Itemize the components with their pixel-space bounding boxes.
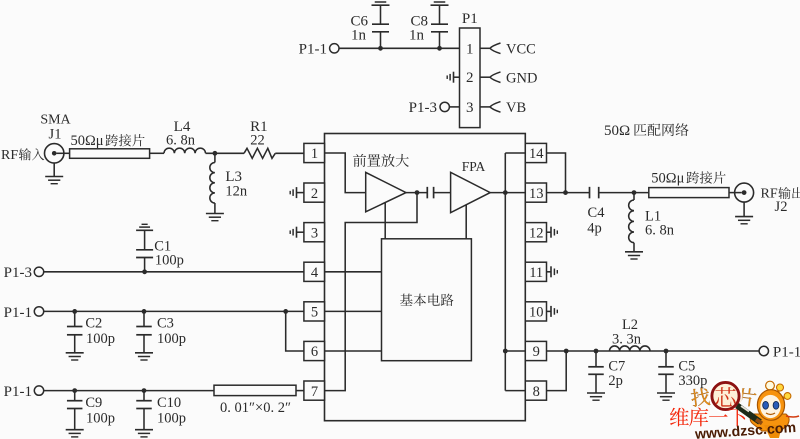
svg-text:5: 5 [311, 305, 318, 321]
op-amp IC main body [325, 134, 526, 421]
svg-text:P1-1: P1-1 [773, 344, 800, 360]
terminal P1-1 (right) [759, 344, 800, 360]
node C9 tap [72, 388, 77, 393]
wire jumper to J2 [729, 192, 734, 194]
svg-text:3. 3n: 3. 3n [612, 331, 642, 347]
wire pin5 to block [325, 310, 382, 312]
microstrip jumper 50ohm (input) [64, 149, 150, 159]
ground (below C3) [135, 352, 153, 354]
wire C4 to jumper [599, 192, 649, 194]
pin 8 [525, 381, 546, 400]
ground (below C9) [66, 429, 84, 431]
ground (above C6) [372, 4, 390, 6]
watermark dzsc logo [670, 381, 799, 439]
ground (below C7) [587, 392, 605, 394]
wire pin1 to preamp input [325, 153, 366, 193]
wire FPA out to pin13 [490, 192, 525, 194]
capacitor C4 4p [587, 187, 605, 237]
pin 2 GND [480, 70, 537, 86]
label preamp [353, 154, 366, 167]
svg-text:2: 2 [311, 186, 318, 202]
capacitor C3 100p [136, 311, 186, 352]
ground (below J2) [735, 202, 753, 224]
node pin14/13 join [563, 190, 568, 195]
node L1 tap [632, 190, 637, 195]
svg-text:1: 1 [466, 41, 474, 57]
svg-text:2: 2 [466, 70, 474, 86]
ground (pin 3) [290, 227, 304, 238]
ground (above C1) [136, 229, 153, 231]
svg-text:P1-3: P1-3 [409, 100, 437, 116]
svg-text:13: 13 [529, 186, 544, 202]
node C7 tap [594, 349, 599, 354]
terminal P1-1 (row to pin7) [4, 384, 44, 400]
capacitor C6 1n [350, 5, 389, 48]
capacitor C9 100p [67, 391, 115, 430]
svg-text:50Ω: 50Ω [604, 123, 630, 139]
node junction C6 [378, 46, 383, 51]
svg-text:4p: 4p [587, 221, 602, 237]
pin 14 [525, 143, 546, 162]
microstrip jumper 50ohm (output) [649, 188, 729, 198]
svg-text:100p: 100p [157, 331, 186, 347]
pin 1 VCC [480, 42, 536, 58]
terminal P1-3 (to P1 pin 3) [409, 100, 460, 116]
pin 13 [525, 183, 546, 202]
op-amp preamp triangle [366, 172, 406, 211]
svg-text:C3: C3 [157, 315, 174, 331]
label RF output J2 [761, 187, 800, 216]
pin 1 [304, 143, 325, 162]
ground (P1 pin 2) [447, 72, 459, 83]
connector J1 SMA coax [40, 113, 71, 164]
wire R1 to pin 1 [275, 152, 304, 154]
wire feedback path to pin 7 [325, 193, 418, 391]
svg-text:12: 12 [529, 225, 544, 241]
svg-text:330p: 330p [678, 373, 707, 389]
svg-text:100p: 100p [157, 410, 186, 426]
node internal pin 9 [503, 349, 508, 354]
capacitor C2 100p [67, 311, 115, 352]
svg-text:50Ωμ: 50Ωμ [71, 133, 104, 149]
wire pin14 jog to pin13 net [547, 153, 566, 193]
svg-text:1: 1 [311, 146, 318, 162]
svg-text:VB: VB [506, 100, 526, 116]
capacitor C7 2p [588, 351, 625, 393]
svg-text:1n: 1n [351, 28, 367, 44]
svg-text:2p: 2p [608, 373, 623, 389]
wire P1-1 to pin 5 [44, 310, 304, 312]
inductor L2 3.3n [610, 317, 651, 351]
svg-text:SMA: SMA [40, 113, 71, 128]
resistor R1 22 [244, 119, 275, 158]
pin 9 [525, 341, 546, 360]
svg-text:P1-1: P1-1 [4, 305, 32, 321]
svg-text:0. 01″×0. 2″: 0. 01″×0. 2″ [220, 400, 291, 416]
svg-text:C10: C10 [157, 395, 181, 411]
label RF input [1, 148, 44, 163]
label 50 ohm matching network [604, 123, 689, 139]
wire FPA bias tap [465, 205, 467, 239]
node pin8 branch [564, 349, 569, 354]
svg-text:P1-1: P1-1 [299, 42, 327, 58]
wire pin6 jog [286, 311, 304, 351]
ground (below C10) [135, 429, 153, 431]
node pin6 branch [283, 309, 288, 314]
svg-text:P1: P1 [462, 11, 478, 27]
inductor L4 6.8n [164, 119, 206, 153]
inductor L1 6.8n [629, 193, 675, 252]
wire P1-1 to microstrip [44, 390, 214, 392]
wire preamp bias tap [384, 203, 386, 239]
pin 7 [304, 381, 325, 400]
ground (pin 2) [290, 187, 304, 198]
wire pin4 to block [325, 271, 382, 273]
node C10 tap [142, 388, 147, 393]
pin 12 [525, 223, 546, 242]
node C2 tap [72, 309, 77, 314]
label 50 ohm jumper (input) [71, 133, 145, 149]
svg-text:C2: C2 [85, 315, 102, 331]
ground (below J1) [45, 163, 63, 184]
svg-text:50Ωμ: 50Ωμ [651, 170, 684, 186]
ground (pin 12) [547, 227, 558, 238]
svg-text:100p: 100p [86, 410, 115, 426]
pin 2 [304, 183, 325, 202]
wire pin8 jog [547, 351, 567, 391]
capacitor C10 100p [136, 391, 186, 430]
node C3 tap [142, 309, 147, 314]
svg-text:12n: 12n [225, 184, 248, 200]
svg-text:6. 8n: 6. 8n [645, 223, 675, 239]
wire internal bus (pins 14/13/9/8) [505, 153, 525, 391]
svg-text:9: 9 [533, 344, 540, 360]
pin 10 [525, 302, 546, 321]
capacitor C1 100p [136, 230, 184, 271]
terminal P1-1 (row to pin5) [4, 305, 44, 321]
svg-text:22: 22 [250, 133, 265, 149]
wire pin6 to block [325, 350, 382, 352]
wire pin13 to C4 [547, 192, 590, 194]
pin 3 [304, 223, 325, 242]
svg-text:6: 6 [311, 344, 318, 360]
node FPA out [503, 190, 508, 195]
svg-text:C4: C4 [588, 205, 606, 221]
svg-text:14: 14 [529, 146, 544, 162]
wire L4 to R1 [206, 152, 245, 154]
svg-text:100p: 100p [86, 331, 115, 347]
node L3 tap [213, 151, 218, 156]
capacitor C5 330p [658, 351, 707, 393]
inductor L3 12n [210, 153, 248, 213]
svg-text:J2: J2 [775, 199, 788, 215]
node C5 tap [664, 349, 669, 354]
svg-text:10: 10 [529, 305, 544, 321]
svg-text:6. 8n: 6. 8n [166, 133, 196, 149]
svg-text:100p: 100p [155, 253, 184, 269]
connector P1 [460, 11, 481, 128]
wire microstrip to pin 7 [296, 390, 304, 392]
pin 6 [304, 341, 325, 360]
pin 4 [304, 262, 325, 281]
node junction C8 [437, 46, 442, 51]
ground (below L3) [206, 213, 224, 215]
basic circuit block [382, 239, 472, 361]
wire pin9 row [547, 350, 760, 352]
ground (below C5) [657, 392, 675, 394]
wire jumper to L4 [150, 152, 164, 154]
svg-text:11: 11 [529, 265, 543, 281]
connector J2 coax [735, 183, 754, 202]
svg-text:RF: RF [1, 148, 18, 163]
label 50 ohm jumper (output) [651, 170, 725, 186]
svg-text:C9: C9 [85, 395, 102, 411]
svg-text:FPA: FPA [462, 159, 486, 174]
node preamp out [415, 190, 420, 195]
pin 5 [304, 302, 325, 321]
svg-text:VCC: VCC [506, 42, 536, 58]
op-amp FPA triangle [451, 172, 491, 212]
pin 3 VB [480, 100, 526, 116]
svg-text:1n: 1n [409, 28, 425, 44]
ground (below C2) [66, 352, 84, 354]
ground (above C8) [431, 4, 449, 6]
pin 11 [525, 262, 546, 281]
wire P1-1 to P1 pin 1 [339, 47, 460, 49]
microstrip 0.01x0.2 inch [214, 385, 296, 395]
svg-text:GND: GND [506, 70, 537, 86]
wire to FPA [434, 192, 451, 194]
svg-text:3: 3 [311, 225, 318, 241]
svg-text:P1-3: P1-3 [4, 265, 32, 281]
ground (below L1) [625, 251, 643, 253]
node C1 tap [142, 269, 147, 274]
ground (pin 10) [547, 306, 558, 317]
svg-text:8: 8 [533, 384, 540, 400]
svg-text:P1-1: P1-1 [4, 384, 32, 400]
svg-text:3: 3 [466, 100, 474, 116]
capacitor coupling (internal) [426, 187, 428, 199]
wire preamp out [406, 192, 427, 194]
terminal P1-3 (row to pin4) [4, 265, 44, 281]
terminal P1-1 (top) [299, 42, 339, 58]
svg-text:J1: J1 [49, 127, 62, 143]
capacitor C8 1n [409, 5, 448, 48]
wire P1-3 to pin 4 [44, 271, 304, 273]
svg-text:4: 4 [311, 265, 319, 281]
svg-text:7: 7 [311, 384, 318, 400]
ground (pin 11) [547, 266, 558, 277]
